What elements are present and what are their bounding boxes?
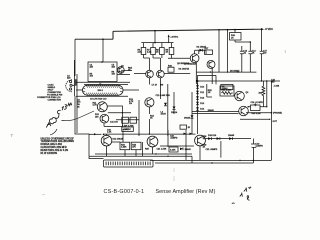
transistor Q13 (195, 135, 206, 146)
transistor Q8 (207, 60, 215, 68)
wire under U1 (76, 82, 130, 84)
resistor R17 (205, 50, 213, 54)
resistor R18 under bus (230, 33, 242, 41)
diode D16 (191, 115, 194, 118)
wire top right verticals (219, 30, 228, 72)
svg-text:-6 VDC: -6 VDC (265, 27, 274, 31)
connector J1 (66, 80, 72, 92)
diode D3 (164, 103, 167, 106)
svg-text:CONNECTOR: CONNECTOR (48, 100, 62, 102)
capacitor C17 (260, 29, 264, 81)
connector strip P1 (104, 160, 154, 167)
wire y119.7 (116, 119, 139, 121)
resistor R16 (168, 67, 174, 72)
resistor R34 (131, 142, 141, 150)
transistor Q7 (190, 54, 199, 63)
wire center drop to U1 (102, 39, 104, 62)
svg-text:UNLESS OTHERWISE SPECIF: UNLESS OTHERWISE SPECIF (41, 138, 75, 140)
delay line L1 (76, 84, 139, 96)
wire out bus pair (192, 112, 239, 114)
wire lower buses (89, 154, 272, 163)
wire x216 drop (215, 75, 217, 84)
capacitor C19 (251, 139, 256, 162)
svg-text:1N645: 1N645 (185, 148, 192, 151)
svg-text:D18 D19: D18 D19 (208, 135, 217, 137)
svg-text:C9 4.7K R10 C10: C9 4.7K R10 C10 (90, 97, 107, 100)
resistor R30 (122, 117, 129, 123)
wire output node (246, 112, 272, 114)
transistor Q2 (100, 114, 109, 123)
wire drops (123, 131, 143, 157)
transistor Q11 (101, 135, 112, 146)
handwriting pointer line (50, 111, 94, 135)
svg-text:1N914: 1N914 (171, 111, 178, 114)
svg-text:RESISTORS ARE in 0.1%: RESISTORS ARE in 0.1% (41, 149, 69, 152)
resistor R33 (120, 142, 130, 150)
diode D4 (197, 49, 207, 51)
wire y72 bus (196, 71, 256, 73)
resistor R2 (151, 48, 156, 55)
resistor R21 zigzag (220, 86, 234, 96)
wire mid vertical x192 (191, 92, 193, 134)
handwriting bottom right (232, 187, 251, 204)
wire Q1 collector right (104, 106, 131, 126)
wire below L1 (76, 95, 128, 97)
transistor Q4 (117, 67, 124, 74)
note unless otherwise specified (41, 138, 75, 155)
svg-text:D6 1N4734: D6 1N4734 (179, 67, 190, 70)
resistor R28 (180, 125, 187, 129)
transistor Q10 (239, 106, 249, 116)
wire Q4 out (117, 71, 132, 75)
diode D9 (197, 80, 200, 83)
svg-text:+10VDC: +10VDC (123, 129, 131, 131)
wire C16 row (248, 103, 267, 107)
svg-text:D8 1N645: D8 1N645 (230, 69, 240, 72)
wire lower right link (240, 118, 270, 120)
wire top bus -6VDC (113, 29, 261, 31)
diode ladder D10-D14 (197, 75, 199, 134)
wire box right (220, 141, 222, 158)
faint tick mark (11, 135, 14, 138)
svg-text:1N645: 1N645 (184, 117, 191, 120)
transistor Q1 (97, 102, 107, 112)
wire Q7 area (168, 50, 212, 84)
svg-text:C11 100: C11 100 (110, 121, 119, 123)
svg-text:4.64K: 4.64K (170, 149, 176, 152)
wire resistor stubs (144, 43, 172, 58)
faint mark left (42, 193, 45, 196)
handwriting A05C13M5 (46, 103, 71, 127)
capacitor C14 (248, 42, 252, 72)
wire verticals mid (139, 84, 168, 136)
svg-text:1N645: 1N645 (228, 134, 235, 137)
resistor R32 box (122, 127, 134, 131)
supply +10VDC arrow (168, 37, 170, 43)
resistor R31 (130, 117, 137, 123)
wire Q5 base (134, 74, 190, 85)
choke L2 (221, 84, 233, 89)
wire top bus step (75, 31, 113, 39)
faint speck right (284, 50, 286, 53)
svg-text:R1 W 1/4W±5%: R1 W 1/4W±5% (41, 152, 58, 155)
svg-text:Q7 2N2222A: Q7 2N2222A (184, 62, 197, 65)
svg-text:DIODES ARE D-662: DIODES ARE D-662 (41, 143, 63, 146)
svg-text:J-10B: J-10B (274, 86, 280, 88)
wire right rails (267, 81, 272, 160)
transistor Q6 (157, 70, 165, 78)
resistor R37 (169, 147, 178, 152)
svg-text:D12 1N645: D12 1N645 (113, 138, 124, 141)
transistor Q5 (146, 70, 154, 78)
svg-text:CAPACITORS ±5% MFD: CAPACITORS ±5% MFD (41, 146, 67, 149)
svg-text:C7 47: C7 47 (152, 84, 158, 87)
svg-text:R21 1.82K: R21 1.82K (222, 90, 232, 92)
crease marks (173, 168, 175, 181)
wire L1 side taps (76, 89, 139, 91)
resistor R1 (141, 48, 146, 55)
node junction (102, 38, 104, 40)
coax shield hatch (74, 79, 77, 86)
svg-text:C12 4.99K R20: C12 4.99K R20 (156, 94, 171, 97)
wire coax double line (74, 60, 77, 133)
capacitor C16 box (251, 105, 261, 111)
transistor Q9 (235, 91, 245, 101)
svg-text:C23 .02MFD: C23 .02MFD (206, 149, 218, 151)
diode D5 (173, 107, 176, 110)
note coax shield text (37, 84, 63, 102)
svg-text:Sense Amplifier (Rev M): Sense Amplifier (Rev M) (156, 189, 216, 195)
wire mid vertical x155 (154, 31, 156, 43)
node top bus arrow (261, 28, 264, 30)
wire Q11 (107, 134, 121, 156)
diode D19 (229, 137, 232, 140)
svg-text:1.82K: 1.82K (121, 147, 127, 149)
svg-text:CS-B-G007-0-1: CS-B-G007-0-1 (104, 189, 145, 195)
resistor R23 zigzag vertical (262, 81, 265, 103)
svg-text:(PROBE): (PROBE) (273, 113, 282, 115)
resistor R25 (207, 84, 212, 97)
svg-text:+10VDC: +10VDC (170, 37, 178, 39)
svg-text:250-2: 250-2 (98, 90, 104, 92)
capacitor C13 (240, 46, 244, 72)
diode D17 D18 (205, 138, 251, 140)
diode D15 (180, 148, 183, 151)
svg-text:R26 2.2M: R26 2.2M (252, 113, 261, 115)
resistor R3 (160, 48, 165, 55)
wire resistor header (141, 42, 173, 44)
transistor Q12 (147, 136, 158, 147)
lower stage: wire into Q11 (89, 133, 102, 135)
wire y81 bus (199, 80, 280, 82)
svg-text:C21 1.54K: C21 1.54K (157, 148, 167, 151)
svg-text:C16 .01 MFD: C16 .01 MFD (251, 102, 264, 104)
wire y134 diodes (104, 133, 196, 135)
resistor R4 (169, 48, 174, 55)
wire stubs to strip (153, 130, 201, 160)
svg-text:TRANSISTORS ARE 2N1308/N: TRANSISTORS ARE 2N1308/N (41, 140, 75, 143)
transistor Q3 (145, 98, 154, 107)
svg-text:OUT: OUT (273, 121, 278, 123)
IC U1 box (88, 62, 117, 82)
wire to Q5/Q6 (144, 58, 161, 70)
wire left rail (75, 39, 89, 156)
